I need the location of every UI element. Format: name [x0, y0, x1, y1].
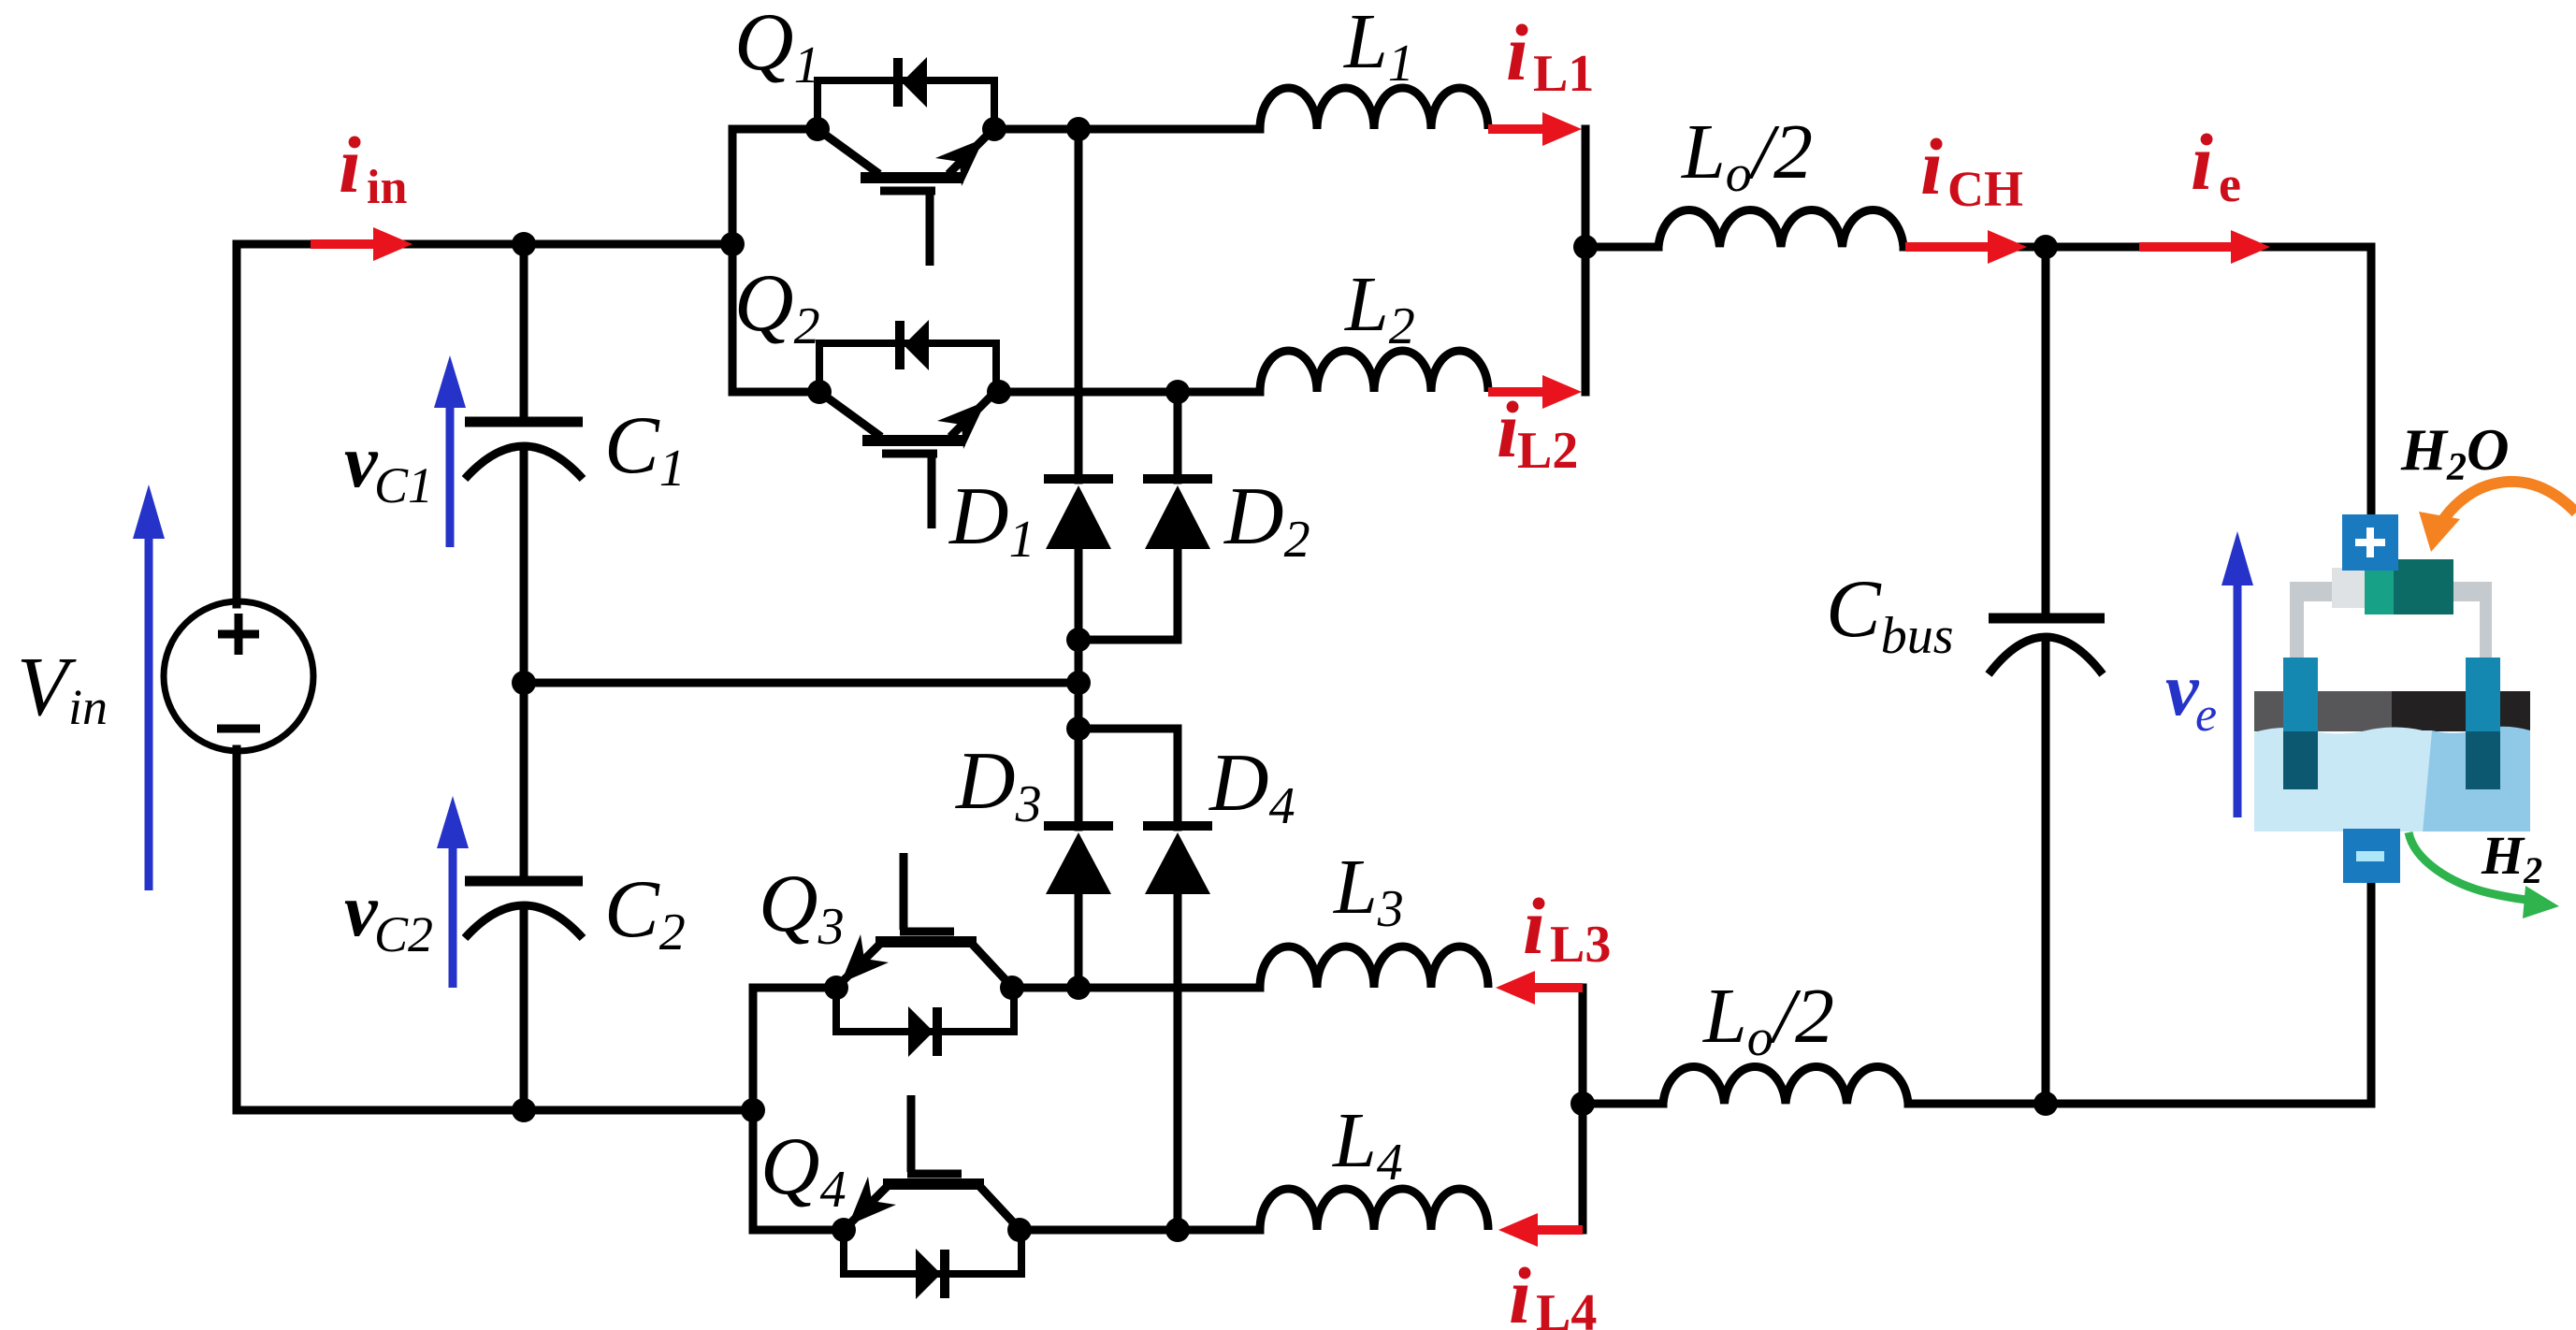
- wire bottom junction to Lo/2: [1583, 1100, 1663, 1108]
- node Q4 collector side: [1007, 1218, 1032, 1242]
- svg-text:CH: CH: [1947, 161, 2023, 217]
- node Q3 output / D3: [1066, 976, 1091, 1000]
- wire D1 column upper: [1075, 129, 1083, 480]
- blue labels: [344, 421, 2217, 962]
- orange H2O arrow: [2441, 482, 2576, 523]
- node Q1 output / D1: [1066, 117, 1091, 141]
- green H2 arrow: [2409, 832, 2527, 900]
- diode of Q3 (antiparallel): [836, 988, 1014, 1057]
- inductor L2: [1260, 351, 1488, 392]
- wire node B to D4 horizontal: [1078, 725, 1178, 733]
- node Q3 emitter side: [824, 976, 848, 1000]
- wire Q4 left stub: [753, 1226, 844, 1235]
- svg-text:C1: C1: [374, 457, 433, 513]
- wire D2 anode vertical: [1174, 547, 1182, 640]
- node top junction: [1573, 235, 1598, 259]
- diode of Q4 (antiparallel): [844, 1230, 1021, 1299]
- svg-text:C2: C2: [374, 906, 433, 962]
- INDUCTORS: [1260, 88, 1908, 1230]
- wire capacitor column lower: [520, 906, 528, 1110]
- node midpoint: [1066, 671, 1091, 695]
- inductor Lo/2 top: [1658, 210, 1903, 247]
- frame light patch: [2332, 568, 2369, 608]
- anode plus terminal: [2342, 514, 2398, 571]
- node Q2 output / D2: [1165, 380, 1190, 404]
- red labels: [339, 7, 2241, 1330]
- diode D4: [1143, 826, 1212, 894]
- node input rail / Q block: [720, 232, 745, 256]
- wire top junction column: [1582, 129, 1590, 392]
- node Q3 collector side: [1000, 976, 1024, 1000]
- electrode right upper: [2466, 658, 2500, 731]
- diode D1: [1044, 479, 1113, 549]
- wire left vertical upper: [233, 244, 241, 604]
- wire D4 cathode vertical: [1174, 729, 1182, 827]
- arrow iL2: [1488, 375, 1582, 409]
- arrow iL3: [1496, 971, 1583, 1005]
- wire Lo/2 to electrolyzer top: [1903, 243, 2371, 252]
- svg-text:i: i: [339, 120, 361, 210]
- wire D2 anode horizontal to node A: [1078, 636, 1178, 644]
- arrow vC2: [437, 796, 469, 988]
- node D3-D4 cathodes: [1066, 716, 1091, 741]
- wire cathode corner up to minus terminal: [2367, 882, 2376, 1104]
- diode D3: [1044, 826, 1113, 894]
- wire D3 anode to Q3 node: [1075, 890, 1083, 988]
- cathode minus terminal: [2343, 829, 2400, 883]
- BLUE VOLTAGE ARROWS: [133, 355, 2253, 988]
- inductor Lo/2 bottom: [1663, 1067, 1908, 1104]
- wire Q4 output to L4: [1020, 1226, 1260, 1235]
- inductor L3: [1260, 947, 1488, 988]
- wire Q1 left stub: [732, 125, 818, 134]
- wire D4 anode to Q4 node: [1174, 890, 1182, 1230]
- svg-text:i: i: [2191, 117, 2213, 207]
- arrow iL1: [1488, 112, 1582, 146]
- wire capacitor column upper: [520, 244, 528, 418]
- wire Q1-Q2 block left vertical: [729, 129, 737, 392]
- arrow vC1: [434, 355, 466, 547]
- arrow ve: [2221, 531, 2253, 817]
- wire Q2 output to L2: [999, 388, 1260, 397]
- capacitor Cbus: [1989, 618, 2105, 674]
- node Q4 emitter side: [832, 1218, 856, 1242]
- arrow iL4: [1498, 1213, 1583, 1247]
- transistor Q1: [818, 129, 990, 266]
- svg-text:i: i: [1506, 7, 1528, 97]
- wire Cbus column upper: [2042, 247, 2050, 614]
- svg-text:in: in: [367, 161, 407, 214]
- wire Q3 left stub: [753, 984, 836, 992]
- wire top junction to Lo/2: [1585, 243, 1658, 252]
- transistor Q2: [819, 392, 991, 528]
- frame top bar: [2290, 582, 2492, 601]
- ELECTROLYZER CELL: [2254, 482, 2576, 918]
- wire left vertical lower: [233, 749, 241, 1110]
- catalyst block light part: [2365, 559, 2394, 614]
- transistor Q4: [847, 1095, 1018, 1227]
- arrow Vin: [133, 484, 165, 890]
- capacitor C1: [465, 422, 583, 479]
- node Q1 collector: [805, 117, 830, 141]
- node Q2 collector: [807, 380, 832, 404]
- diode of Q2 (antiparallel): [819, 320, 996, 392]
- wire Q3 output to L3: [1012, 984, 1260, 992]
- wire bottom Lo/2 to cathode corner: [1908, 1100, 2371, 1108]
- RED CURRENT ARROWS: [311, 112, 2270, 1247]
- tank band right: [2392, 691, 2530, 731]
- CAPACITORS: [465, 422, 2105, 938]
- svg-text:L2: L2: [1517, 422, 1578, 480]
- wire D2 cathode column: [1174, 392, 1182, 480]
- water left: [2254, 728, 2432, 832]
- arrow ie: [2139, 230, 2270, 264]
- wire Cbus column lower: [2042, 640, 2050, 1104]
- wire D1 anode to node A: [1075, 547, 1083, 827]
- node Q4 output / D4: [1165, 1218, 1190, 1242]
- node capacitor midpoint: [512, 671, 536, 695]
- svg-text:i: i: [1523, 881, 1545, 971]
- wire Q3-Q4 block left vertical: [749, 988, 758, 1230]
- tank band left: [2254, 691, 2392, 731]
- wire top-right corner down to anode: [2367, 247, 2376, 515]
- node bottom rail / Q block: [741, 1098, 765, 1122]
- water right: [2423, 727, 2530, 831]
- electrode right lower: [2466, 731, 2500, 789]
- wire capacitor column middle: [520, 448, 528, 877]
- arrow iCH: [1905, 230, 2027, 264]
- node Cbus bottom: [2033, 1091, 2058, 1116]
- inductor L1: [1260, 88, 1488, 129]
- wire Q2 left stub: [732, 388, 819, 397]
- diode D2: [1143, 479, 1212, 549]
- svg-text:i: i: [1509, 1250, 1531, 1330]
- wire Q1 output to L1: [994, 125, 1260, 134]
- svg-text:e: e: [2195, 688, 2217, 742]
- capacitor C2: [465, 881, 583, 938]
- frame right leg: [2480, 600, 2492, 658]
- svg-text:i: i: [1920, 122, 1943, 211]
- wire bottom-left rail: [237, 1106, 753, 1115]
- svg-text:L1: L1: [1533, 45, 1594, 103]
- transistor Q3: [839, 853, 1010, 985]
- svg-text:i: i: [1497, 384, 1519, 474]
- node Cbus top: [2033, 235, 2058, 259]
- electrode left lower: [2283, 731, 2318, 789]
- catalyst block dark part: [2394, 559, 2453, 614]
- electrode left upper: [2283, 658, 2318, 731]
- voltage source Vin: [164, 601, 313, 751]
- svg-text:e: e: [2219, 156, 2241, 212]
- node bottom rail / C2: [512, 1098, 536, 1122]
- frame left leg: [2290, 582, 2304, 658]
- wire bottom junction column: [1579, 988, 1587, 1230]
- arrow i_in: [311, 227, 412, 261]
- node bottom junction: [1570, 1091, 1595, 1116]
- node input rail / C1 top: [512, 232, 536, 256]
- svg-text:L4: L4: [1536, 1284, 1597, 1330]
- node Q1 emitter: [982, 117, 1006, 141]
- node Q2 emitter: [987, 380, 1011, 404]
- diode of Q1 (antiparallel): [818, 57, 994, 129]
- svg-text:L3: L3: [1550, 916, 1611, 974]
- node D1-D2 anodes: [1066, 628, 1091, 652]
- inductor L4: [1260, 1189, 1488, 1230]
- wire top-left rail: [237, 240, 732, 249]
- wire middle rail: [524, 679, 1078, 687]
